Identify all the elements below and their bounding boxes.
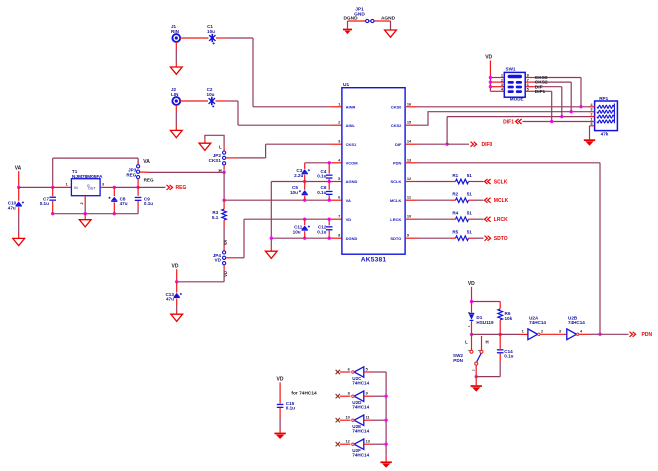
svg-text:5.1: 5.1 [212,215,219,220]
svg-text:10: 10 [407,214,411,219]
svg-text:0.1u: 0.1u [317,229,326,234]
svg-text:CKS1: CKS1 [346,142,357,147]
svg-text:VD: VD [485,55,492,61]
svg-text:47u: 47u [8,205,16,210]
svg-text:T1: T1 [72,169,78,174]
svg-text:REG: REG [144,178,154,183]
svg-text:AK5381: AK5381 [361,257,387,264]
svg-text:AINL: AINL [346,123,356,128]
svg-text:74HC14: 74HC14 [352,453,369,458]
svg-text:R2: R2 [452,192,458,197]
svg-text:VA: VA [346,198,351,203]
svg-text:SCLK: SCLK [391,179,402,184]
svg-text:0.1u: 0.1u [144,201,153,206]
svg-text:CKS2: CKS2 [391,123,402,128]
svg-text:L: L [219,145,222,150]
svg-text:H: H [219,168,222,173]
svg-text:10: 10 [345,415,349,420]
svg-text:RIN: RIN [171,29,180,34]
svg-text:51: 51 [467,173,473,178]
svg-text:MCLK: MCLK [494,198,509,204]
svg-text:VA: VA [15,165,22,171]
svg-text:HSU119: HSU119 [476,320,494,325]
svg-text:REG: REG [176,185,187,191]
svg-text:VD: VD [346,217,352,222]
svg-text:2: 2 [80,202,84,204]
svg-text:0.1u: 0.1u [317,190,326,195]
svg-text:10u: 10u [207,29,215,34]
svg-text:DIF1: DIF1 [503,119,514,125]
svg-text:51: 51 [467,211,473,216]
svg-text:OUT: OUT [88,187,96,191]
svg-text:VA: VA [223,240,228,246]
svg-text:REG: REG [126,172,136,177]
svg-text:DGND: DGND [346,236,358,241]
svg-text:10u: 10u [207,92,215,97]
svg-text:AINR: AINR [346,104,356,109]
svg-text:0.1u: 0.1u [286,406,295,411]
svg-text:51: 51 [467,192,473,197]
svg-text:2.2u: 2.2u [294,173,303,178]
svg-text:DGND: DGND [343,16,358,22]
svg-text:VD: VD [277,377,284,383]
svg-text:R4: R4 [452,211,458,216]
svg-text:SDTO: SDTO [494,236,508,242]
svg-text:AGND: AGND [346,179,358,184]
svg-text:3: 3 [102,183,104,187]
svg-text:10k: 10k [505,316,513,321]
svg-text:DIF: DIF [395,142,402,147]
svg-text:NJM78M05FA: NJM78M05FA [72,174,103,180]
svg-text:47u: 47u [166,297,174,302]
svg-text:47u: 47u [120,201,128,206]
svg-text:R1: R1 [452,173,458,178]
svg-text:74HC14: 74HC14 [352,429,369,434]
svg-text:VCOM: VCOM [346,160,359,165]
svg-text:SCLK: SCLK [494,179,508,185]
svg-text:DIF0: DIF0 [482,142,493,148]
svg-text:74HC14: 74HC14 [529,320,546,325]
svg-text:0.1u: 0.1u [40,201,49,206]
svg-text:47k: 47k [601,132,609,137]
svg-text:U1: U1 [343,82,349,88]
svg-text:VD: VD [172,263,179,269]
svg-text:CKS1: CKS1 [209,158,222,163]
svg-text:DIF1: DIF1 [535,89,546,95]
svg-text:0.1u: 0.1u [504,354,513,359]
svg-text:MODE: MODE [510,96,524,101]
svg-text:PDN: PDN [393,160,402,165]
svg-text:SDTO: SDTO [390,236,401,241]
svg-text:74HC14: 74HC14 [568,320,585,325]
svg-text:PDN: PDN [642,332,653,338]
svg-text:R5: R5 [452,230,458,235]
svg-text:VD: VD [215,258,222,263]
svg-text:1: 1 [66,183,68,187]
svg-text:VD: VD [468,281,475,287]
svg-text:10u: 10u [290,190,298,195]
svg-text:RP1: RP1 [599,96,608,101]
svg-text:MCLK: MCLK [390,198,402,203]
svg-text:H: H [486,339,489,344]
svg-text:IN: IN [74,186,78,190]
svg-text:74HC14: 74HC14 [352,380,369,385]
svg-text:PDN: PDN [453,358,463,363]
svg-text:74HC14: 74HC14 [352,405,369,410]
svg-text:7: 7 [338,214,340,219]
svg-text:0.1u: 0.1u [317,174,326,179]
svg-text:51: 51 [467,230,473,235]
svg-text:LIN: LIN [171,92,179,97]
svg-text:for 74HC14: for 74HC14 [291,390,317,396]
svg-text:L: L [465,339,468,344]
svg-text:VA: VA [143,159,150,165]
svg-text:AGND: AGND [381,16,396,22]
svg-text:LRCK: LRCK [494,217,508,223]
svg-text:LRCK: LRCK [390,217,401,222]
svg-text:CKS0: CKS0 [391,104,402,109]
svg-text:10u: 10u [293,229,301,234]
svg-text:SW1: SW1 [506,67,516,72]
